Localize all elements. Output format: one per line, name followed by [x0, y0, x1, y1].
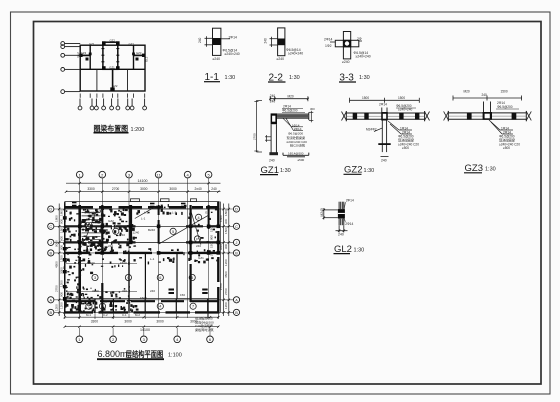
- annotation clutter right rooms sparse: [188, 208, 217, 264]
- svg-text:GZ1: GZ1: [129, 42, 135, 46]
- svg-text:6: 6: [159, 276, 161, 280]
- svg-text:砼C20浇筑: 砼C20浇筑: [290, 142, 305, 147]
- svg-text:300: 300: [310, 107, 315, 111]
- column shaft: [382, 121, 386, 153]
- annotation clutter inner dim row 1: [69, 258, 136, 268]
- svg-text:24: 24: [133, 244, 137, 248]
- svg-text:1500: 1500: [224, 227, 228, 234]
- svg-text:600: 600: [60, 236, 64, 241]
- leader diagonal small top-mid: [135, 206, 157, 219]
- lower bay wall thin right: [127, 69, 129, 91]
- svg-text:GZ1: GZ1: [109, 65, 115, 69]
- svg-text:1800: 1800: [60, 209, 64, 216]
- svg-text:GZ1: GZ1: [198, 256, 204, 260]
- wall on grid 4: [190, 205, 192, 302]
- svg-text:2700: 2700: [54, 285, 58, 292]
- svg-text:M20: M20: [464, 90, 470, 94]
- center column square: [381, 112, 388, 121]
- svg-text:1500: 1500: [362, 96, 369, 100]
- beam end break marks: [342, 112, 430, 121]
- svg-text:240: 240: [120, 233, 125, 237]
- beam black blocks: [467, 113, 472, 120]
- svg-text:梁板同时浇筑: 梁板同时浇筑: [195, 327, 214, 332]
- annotation clutter inner dim row 2: [66, 286, 130, 299]
- svg-text:2Φ14: 2Φ14: [229, 35, 237, 39]
- svg-text:240: 240: [211, 187, 217, 191]
- upper bay wall on axis 2: [89, 45, 91, 69]
- top dimension line: [350, 98, 420, 103]
- svg-text:≥240×240: ≥240×240: [288, 52, 303, 56]
- GZ1 column bottom blob: [269, 152, 278, 155]
- svg-text:4: 4: [198, 216, 200, 220]
- svg-text:2Φ14: 2Φ14: [346, 198, 354, 202]
- horizontal wall rect: [335, 40, 359, 47]
- svg-text:1: 1: [101, 305, 103, 309]
- annex bottom wall: [65, 311, 220, 313]
- GZ1 column shaft: [271, 124, 276, 154]
- svg-text:GL2: GL2: [144, 56, 148, 62]
- beam black square with bar hole: [343, 40, 351, 48]
- staircase treads: [82, 209, 101, 240]
- svg-text:2Φ14: 2Φ14: [324, 38, 332, 42]
- svg-text:GZ2: GZ2: [112, 84, 118, 88]
- svg-text:≥240: ≥240: [213, 57, 221, 61]
- GL2 bottom dim: [336, 225, 348, 232]
- ring plan outer walls: [80, 45, 145, 91]
- svg-text:L-1: L-1: [150, 257, 155, 261]
- svg-text:3: 3: [94, 276, 96, 280]
- section cut marks at plan edge: [72, 203, 186, 207]
- center column top rebar ticks: [382, 108, 387, 113]
- GZ1 annotation text block: [287, 123, 308, 147]
- wall on grid 5: [208, 205, 210, 229]
- svg-text:L-2: L-2: [172, 211, 177, 215]
- right annotation: [359, 40, 362, 42]
- svg-text:7: 7: [192, 305, 194, 309]
- svg-text:1500: 1500: [140, 296, 147, 300]
- svg-text:1:30: 1:30: [354, 247, 365, 253]
- annotation clutter stair/bath block: [82, 209, 135, 254]
- center column section: [483, 112, 492, 120]
- legend notes block: [195, 316, 214, 332]
- svg-text:1500: 1500: [398, 96, 405, 100]
- svg-text:GZ: GZ: [205, 211, 209, 215]
- left dim bracket: [205, 36, 213, 47]
- svg-text:240: 240: [270, 100, 276, 104]
- svg-text:2700: 2700: [253, 133, 257, 140]
- svg-text:3000: 3000: [169, 187, 177, 191]
- svg-text:GZ2: GZ2: [110, 39, 116, 43]
- ring plan title 圈梁布置图 1:200: [94, 124, 145, 133]
- svg-text:5: 5: [172, 230, 174, 234]
- vertical wall rect: [343, 32, 350, 59]
- svg-text:L-1: L-1: [141, 217, 146, 221]
- svg-text:240: 240: [198, 37, 202, 43]
- annotation clutter top-left block: [65, 208, 104, 255]
- leader lines: [489, 120, 513, 134]
- svg-text:1240: 1240: [133, 231, 140, 235]
- svg-text:1500: 1500: [120, 261, 127, 265]
- svg-text:GZ2: GZ2: [108, 219, 114, 223]
- svg-text:B: B: [235, 311, 238, 315]
- svg-text:6: 6: [127, 276, 129, 280]
- beam black square: [278, 39, 285, 46]
- column tie bar: [378, 143, 390, 145]
- svg-text:≥240×240: ≥240×240: [225, 52, 240, 56]
- wall on grid 3: [129, 205, 132, 244]
- svg-text:3300: 3300: [92, 289, 99, 293]
- svg-text:1:30: 1:30: [364, 168, 375, 174]
- svg-text:M-1: M-1: [86, 313, 91, 317]
- beam end break marks: [444, 111, 532, 120]
- bottom extension lines: [65, 312, 219, 319]
- svg-text:7: 7: [88, 305, 90, 309]
- column blocks at right grid intersections: [78, 225, 220, 255]
- svg-text:B240: B240: [148, 228, 155, 232]
- svg-text:2700: 2700: [224, 288, 228, 295]
- svg-text:≥240: ≥240: [277, 57, 285, 61]
- svg-text:1:30: 1:30: [289, 75, 300, 81]
- svg-text:L-2: L-2: [144, 211, 149, 215]
- svg-text:D: D: [49, 208, 52, 212]
- grid circles D C J B A B (right): [233, 206, 239, 316]
- svg-text:240: 240: [269, 159, 275, 163]
- inner dim thin lines: [66, 263, 137, 265]
- wall on grid 1: [78, 205, 81, 312]
- svg-text:1:30: 1:30: [359, 75, 370, 81]
- svg-text:≥240×240: ≥240×240: [356, 55, 371, 59]
- svg-text:Φ8@200: Φ8@200: [84, 211, 96, 215]
- wall rect: [278, 28, 285, 56]
- wall on grid C: [65, 225, 220, 227]
- GL2 bottom-right rebar label: [344, 219, 345, 222]
- right dimension lines: [222, 204, 230, 317]
- svg-text:Φ6.5@200: Φ6.5@200: [282, 108, 298, 112]
- svg-text:4500: 4500: [54, 261, 58, 268]
- room number circles: [86, 214, 202, 309]
- left bay cross wall: [80, 54, 90, 56]
- svg-text:C-1: C-1: [122, 313, 127, 317]
- svg-text:1200: 1200: [224, 259, 228, 266]
- svg-text:14100: 14100: [138, 179, 148, 183]
- svg-text:1800: 1800: [224, 209, 228, 216]
- GL2 top-right rebar label: [344, 202, 345, 209]
- beam rebar line: [346, 115, 424, 117]
- wall on grid 2: [101, 205, 103, 312]
- svg-text:240: 240: [482, 93, 488, 97]
- svg-text:层结构平面图: 层结构平面图: [125, 349, 163, 359]
- svg-text:2700: 2700: [219, 283, 223, 290]
- right leader lines: [388, 121, 412, 134]
- svg-text:M240: M240: [320, 208, 324, 216]
- inner vertical dim texts right part: [210, 225, 214, 256]
- svg-text:A: A: [235, 298, 238, 302]
- wall on grid B: [65, 252, 220, 254]
- svg-text:3000: 3000: [140, 187, 148, 191]
- svg-text:150: 150: [180, 293, 185, 297]
- svg-text:240: 240: [264, 38, 268, 44]
- svg-text:P: P: [196, 237, 199, 241]
- svg-text:2Φ14: 2Φ14: [294, 127, 302, 131]
- svg-text:3000: 3000: [124, 319, 132, 323]
- center bay edge rebar ticks: [101, 49, 119, 62]
- svg-text:2: 2: [115, 230, 117, 234]
- svg-text:3300: 3300: [91, 319, 99, 323]
- svg-text:1:30: 1:30: [225, 75, 236, 81]
- bottom dimension lines: [64, 316, 220, 328]
- beam black square: [213, 38, 221, 45]
- svg-text:1:100: 1:100: [168, 353, 182, 359]
- small in-plan labels: [84, 211, 209, 301]
- top dimension lines: [65, 182, 221, 193]
- leader diagonal right room: [192, 213, 201, 244]
- lower bay wall thick middle: [112, 69, 114, 91]
- right leader: [221, 38, 230, 40]
- svg-text:1200: 1200: [224, 302, 228, 309]
- lower bay wall thin left: [96, 69, 98, 91]
- annotation block: [499, 127, 520, 151]
- grid circles 1 2 3 11 4 5 (top): [76, 171, 212, 178]
- left exterior wall: [64, 202, 66, 313]
- beam rebar line: [448, 115, 526, 117]
- grid circles D C J B A B (left): [48, 206, 54, 316]
- svg-text:14100: 14100: [140, 328, 150, 332]
- svg-text:圈梁布置图: 圈梁布置图: [94, 124, 129, 133]
- svg-text:1500: 1500: [501, 90, 508, 94]
- svg-text:J: J: [236, 241, 238, 245]
- GL2 left dim bracket: [323, 208, 338, 219]
- ring plan bottom dimension ticks: [80, 94, 145, 98]
- horizontal grid axis lines: [54, 209, 233, 312]
- annotation clutter annex left: [64, 299, 138, 313]
- svg-text:2Φ14: 2Φ14: [379, 103, 387, 107]
- GL2 beam section black: [338, 209, 345, 218]
- top dimension line: [453, 96, 522, 101]
- center box top rebar ticks: [484, 102, 491, 113]
- column bottom marks: [381, 156, 389, 158]
- beam lines: [448, 111, 526, 121]
- svg-text:2Φ: 2Φ: [357, 37, 362, 41]
- grid circles 1 2 3 4 6 (bottom): [76, 336, 213, 343]
- svg-text:C-2: C-2: [103, 313, 108, 317]
- wall on grid A: [65, 298, 220, 300]
- GZ1 beam: [277, 112, 309, 120]
- window labels under annex: [86, 313, 140, 317]
- svg-text:9000: 9000: [54, 240, 58, 247]
- right exterior wall: [217, 202, 219, 313]
- left dimension lines: [58, 204, 66, 317]
- svg-text:3000: 3000: [156, 319, 164, 323]
- svg-text:1500: 1500: [88, 261, 95, 265]
- svg-text:C: C: [235, 225, 238, 229]
- GZ1 left vertical dim: [254, 101, 262, 153]
- wall on grid 11: [158, 205, 160, 244]
- svg-text:D: D: [235, 208, 238, 212]
- svg-text:1500: 1500: [210, 241, 214, 248]
- ring plan column squares: [79, 41, 145, 91]
- svg-text:330: 330: [122, 289, 127, 293]
- wall on grid J: [65, 241, 220, 243]
- GZ1 top dimension line: [269, 96, 309, 101]
- annotation clutter mid-left rooms: [67, 259, 94, 300]
- svg-text:2Φ14: 2Φ14: [345, 222, 353, 226]
- svg-text:900: 900: [60, 292, 64, 297]
- GZ1 corner column head: [271, 113, 277, 124]
- svg-text:≥500: ≥500: [503, 146, 510, 150]
- beam black blocks: [353, 113, 357, 120]
- svg-text:M-2: M-2: [135, 313, 140, 317]
- svg-text:5: 5: [191, 276, 193, 280]
- svg-text:GZ3: GZ3: [136, 51, 142, 55]
- svg-text:6.800m: 6.800m: [98, 349, 128, 359]
- ring plan tiny labels: [76, 39, 148, 89]
- upper bay wall on axis 4: [133, 45, 135, 69]
- top wall outer face line: [65, 201, 220, 203]
- svg-text:240: 240: [150, 289, 155, 293]
- svg-text:GL2: GL2: [76, 52, 80, 58]
- left dim bracket: [270, 37, 278, 47]
- svg-text:240: 240: [338, 232, 344, 236]
- svg-text:3300: 3300: [87, 187, 95, 191]
- GL2 column face lines: [339, 202, 344, 226]
- vertical grid axis lines: [80, 178, 209, 318]
- svg-text:B: B: [50, 252, 53, 256]
- annex partition walls: [94, 299, 96, 313]
- left annotation: [330, 41, 335, 43]
- svg-text:Φ6.5@200: Φ6.5@200: [497, 105, 513, 109]
- right annotation block: [398, 127, 419, 151]
- svg-text:≥500: ≥500: [298, 158, 305, 162]
- svg-text:900: 900: [224, 219, 228, 224]
- ring plan center bay (stair shaft): [103, 42, 118, 69]
- svg-text:1200: 1200: [54, 304, 58, 311]
- svg-text:240: 240: [381, 159, 387, 163]
- svg-text:900: 900: [224, 244, 228, 249]
- svg-text:4: 4: [159, 305, 161, 309]
- pier marks above grid A: [169, 289, 208, 295]
- annotation clutter band B row: [139, 248, 218, 264]
- svg-text:240: 240: [196, 244, 201, 248]
- svg-text:A: A: [50, 298, 53, 302]
- svg-text:900: 900: [210, 235, 214, 240]
- top exterior wall (grid D): [65, 206, 220, 208]
- svg-text:240: 240: [270, 94, 276, 98]
- ring plan bottom grid circles: [78, 99, 146, 110]
- svg-text:B: B: [235, 252, 238, 256]
- svg-text:1Φ14@500: 1Φ14@500: [288, 152, 304, 156]
- GZ1 left mid bracket: [265, 135, 271, 142]
- annotation clutter left wall strip: [63, 210, 82, 312]
- GZ1 beam right end dim bracket: [309, 111, 313, 123]
- interior partition walls in band B-A: [144, 253, 146, 299]
- svg-text:1:30: 1:30: [280, 168, 291, 174]
- svg-text:1:200: 1:200: [131, 127, 145, 133]
- GZ1 bottom lap-bar detail: [283, 153, 309, 157]
- svg-text:≥240: ≥240: [342, 60, 350, 64]
- svg-text:C: C: [49, 225, 52, 229]
- svg-text:1800: 1800: [54, 215, 58, 222]
- svg-text:2x40: 2x40: [195, 187, 202, 191]
- svg-text:GZ1: GZ1: [89, 42, 95, 46]
- svg-text:J: J: [50, 241, 52, 245]
- svg-text:B: B: [50, 311, 53, 315]
- beam lines: [346, 111, 424, 121]
- svg-text:2700: 2700: [112, 187, 120, 191]
- svg-text:240: 240: [108, 244, 113, 248]
- svg-text:1800: 1800: [219, 215, 223, 222]
- svg-text:1Φ2: 1Φ2: [325, 44, 332, 48]
- GZ1 leader lines: [283, 118, 303, 130]
- svg-text:1200: 1200: [60, 302, 64, 309]
- svg-text:M20: M20: [288, 94, 294, 98]
- wall rect: [213, 28, 221, 55]
- right bay cross wall: [134, 54, 146, 56]
- leader diagonal across room 5: [159, 215, 210, 244]
- svg-text:1:30: 1:30: [485, 167, 496, 173]
- svg-text:4500: 4500: [224, 271, 228, 278]
- svg-text:≥500: ≥500: [402, 146, 409, 150]
- svg-text:240: 240: [168, 257, 173, 261]
- svg-text:GZ3: GZ3: [81, 51, 87, 55]
- ring plan middle spine wall: [80, 68, 145, 70]
- ring plan left grid circles: [61, 42, 80, 94]
- annotation clutter top mid: [136, 204, 186, 215]
